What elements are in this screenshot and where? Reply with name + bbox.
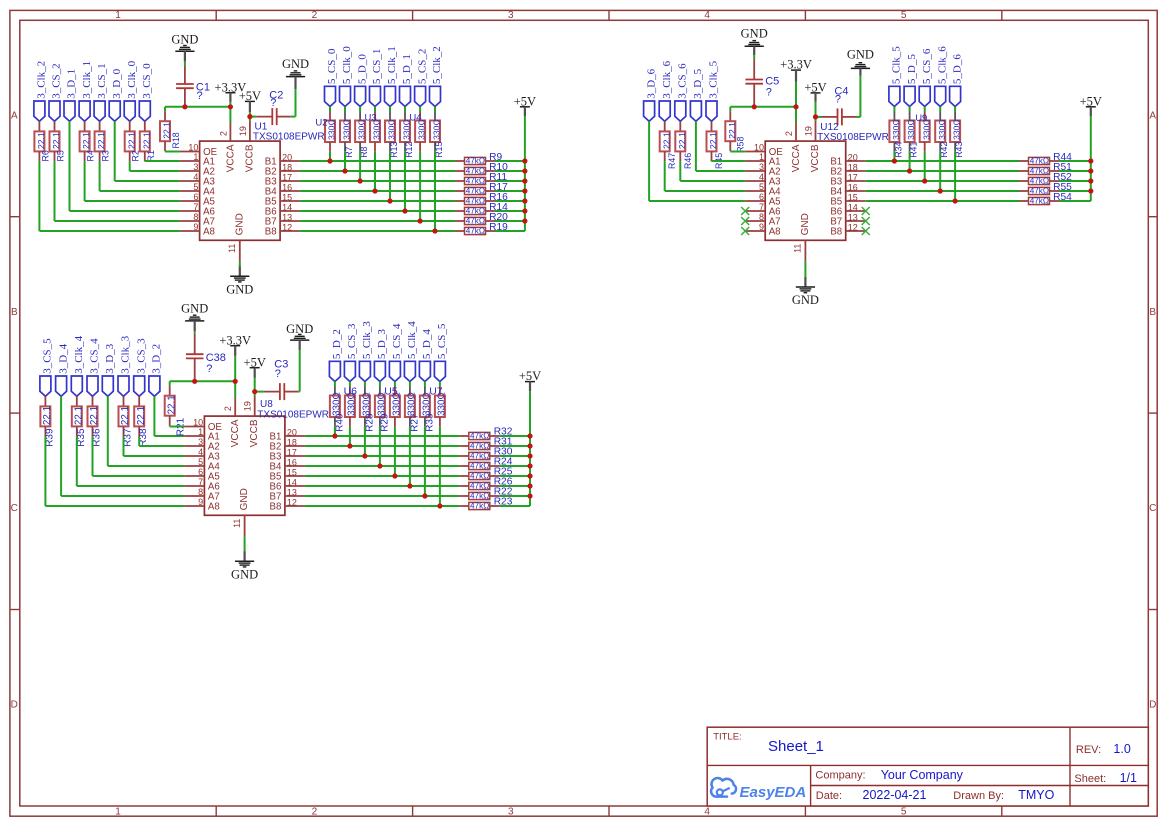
resistor R36 22.1 xyxy=(92,396,94,406)
svg-text:47kΩ: 47kΩ xyxy=(1030,157,1049,166)
node junction VCCA xyxy=(233,379,238,384)
pin 6 A5 xyxy=(745,200,765,202)
resistor R10 47k xyxy=(455,170,465,172)
svg-text:5_D_3: 5_D_3 xyxy=(376,329,388,359)
wire 3_D_2 to U8 xyxy=(153,396,155,436)
svg-text:13: 13 xyxy=(282,213,292,223)
junction 5_Clk_6 xyxy=(938,188,943,193)
wire +5V to C2 xyxy=(250,116,256,118)
svg-text:A8: A8 xyxy=(769,227,781,238)
port 5_CS_2 xyxy=(415,86,426,106)
svg-text:?: ? xyxy=(275,368,281,380)
resistor 330 R41 xyxy=(909,107,911,112)
svg-text:1: 1 xyxy=(198,427,203,437)
junction 5_CS_2 xyxy=(418,218,423,223)
svg-text:8: 8 xyxy=(193,212,198,222)
svg-text:R28: R28 xyxy=(364,413,375,432)
wire 3_CS_2 to U1 xyxy=(54,161,56,221)
wire 5_Clk_1 to row xyxy=(389,152,391,201)
svg-text:47kΩ: 47kΩ xyxy=(466,227,485,236)
junction 5_Clk_0 xyxy=(342,168,347,173)
port 5_D_5 xyxy=(904,86,915,106)
resistor R4 22.1 xyxy=(84,121,86,131)
wire B3 row xyxy=(866,180,1019,182)
port 3_CS_2 xyxy=(49,101,60,121)
svg-text:18: 18 xyxy=(282,163,292,173)
svg-text:16: 16 xyxy=(287,458,297,468)
resistor 330 R7 xyxy=(344,107,346,112)
pin 13 B7 xyxy=(285,495,305,497)
svg-text:15: 15 xyxy=(287,468,297,478)
svg-text:?: ? xyxy=(270,97,276,109)
resistor R1 22.1 xyxy=(144,121,146,131)
svg-text:8: 8 xyxy=(759,212,764,222)
wire +5V to VCCB node xyxy=(815,102,817,117)
resistor R14 47k xyxy=(455,210,465,212)
wire R17 to +5V rail xyxy=(495,190,525,192)
svg-text:Sheet_1: Sheet_1 xyxy=(768,738,824,755)
svg-text:?: ? xyxy=(206,363,212,375)
svg-text:R3: R3 xyxy=(101,150,111,161)
op-amp U1 TXS0108EPWR body xyxy=(200,141,281,240)
junction 5_Clk_2 xyxy=(432,228,437,233)
svg-text:5_D_4: 5_D_4 xyxy=(421,329,433,359)
wire +3.3V to node xyxy=(229,102,231,107)
wire 5_CS_3 to row xyxy=(349,427,351,446)
svg-text:1: 1 xyxy=(115,807,121,818)
wire R19 to +5V rail xyxy=(495,230,525,232)
wire +3.3V to node xyxy=(234,356,236,381)
svg-text:VCCA: VCCA xyxy=(791,144,802,172)
svg-text:R18: R18 xyxy=(171,132,181,148)
wire R21 to OE xyxy=(169,425,171,428)
node junction C-GND xyxy=(182,104,187,109)
svg-text:?: ? xyxy=(766,87,772,99)
svg-text:47kΩ: 47kΩ xyxy=(470,462,489,471)
svg-text:R33: R33 xyxy=(424,413,435,432)
svg-text:5_D_1: 5_D_1 xyxy=(401,54,413,84)
wire +5V to VCCB node xyxy=(249,112,251,116)
junction +5V rail row 5 xyxy=(522,198,527,203)
svg-text:VCCB: VCCB xyxy=(244,144,255,172)
svg-text:3: 3 xyxy=(193,162,198,172)
svg-text:GND: GND xyxy=(800,213,811,235)
svg-text:1/1: 1/1 xyxy=(1120,771,1137,785)
wire B4 row xyxy=(300,190,455,192)
pin 20 B1 xyxy=(280,160,300,162)
svg-text:47kΩ: 47kΩ xyxy=(466,187,485,196)
port 3_D_4 xyxy=(56,376,67,396)
wire B1 row xyxy=(305,435,459,437)
svg-text:15: 15 xyxy=(282,193,292,203)
pin 19 VCCB xyxy=(249,121,251,141)
svg-text:2: 2 xyxy=(218,131,228,136)
wire R23 to +5V rail xyxy=(499,505,530,507)
wire R55 to +5V rail xyxy=(1059,190,1091,192)
pin 2 VCCA xyxy=(229,123,231,142)
svg-text:VCCA: VCCA xyxy=(225,144,236,172)
wire B7 row xyxy=(300,220,455,222)
svg-text:20: 20 xyxy=(282,153,292,163)
svg-text:B: B xyxy=(1149,307,1156,318)
wire 5_CS_0 to row xyxy=(329,152,331,161)
svg-text:VCCB: VCCB xyxy=(249,419,260,447)
wire 5_Clk_3 to row xyxy=(364,427,366,456)
wire 3_D_5 to U12 xyxy=(695,121,697,171)
svg-text:22.1: 22.1 xyxy=(120,406,131,425)
wire B1 row xyxy=(300,160,455,162)
pin 18 B2 xyxy=(280,170,300,172)
svg-text:19: 19 xyxy=(243,401,253,411)
no-connect A7 xyxy=(741,217,749,225)
svg-text:D: D xyxy=(1149,700,1156,711)
port 5_Clk_2 xyxy=(430,86,441,106)
capacitor C5 xyxy=(753,59,755,79)
junction 5_Clk_5 xyxy=(892,158,897,163)
pin 14 B6 xyxy=(280,210,300,212)
wire 3_D_4 to U8 xyxy=(60,396,62,496)
svg-text:R47: R47 xyxy=(667,153,677,169)
svg-text:3_Clk_3: 3_Clk_3 xyxy=(120,335,132,373)
wire ground to cap xyxy=(184,61,186,66)
resistor R46 22.1 xyxy=(679,121,681,131)
port 5_CS_5 xyxy=(434,361,445,381)
svg-text:10: 10 xyxy=(193,418,203,428)
pin 12 B8 xyxy=(280,230,300,232)
resistor 330 R13 xyxy=(389,107,391,112)
svg-text:14: 14 xyxy=(848,203,858,213)
svg-text:3_D_6: 3_D_6 xyxy=(645,68,657,98)
pin 1 A1 xyxy=(180,160,200,162)
wire R10 to +5V rail xyxy=(495,170,525,172)
wire 5_D_1 to row xyxy=(404,152,406,211)
resistor 330 (array) xyxy=(924,107,926,112)
port 5_Clk_6 xyxy=(935,86,946,106)
svg-text:47kΩ: 47kΩ xyxy=(1030,177,1049,186)
svg-text:5_CS_4: 5_CS_4 xyxy=(391,323,403,359)
svg-text:C: C xyxy=(11,503,18,514)
svg-text:47kΩ: 47kΩ xyxy=(466,177,485,186)
pin 15 B5 xyxy=(280,200,300,202)
wire B4 row xyxy=(305,465,459,467)
port 3_D_5 xyxy=(690,101,701,121)
pin 3 A2 xyxy=(745,170,765,172)
wire B6 row xyxy=(300,210,455,212)
wire R11 to +5V rail xyxy=(495,180,525,182)
svg-text:2: 2 xyxy=(784,131,794,136)
junction 5_CS_6 xyxy=(922,178,927,183)
wire B8 row xyxy=(300,230,455,232)
junction 5_D_1 xyxy=(402,208,407,213)
svg-text:330Ω: 330Ω xyxy=(332,392,343,416)
junction +5V VCCB xyxy=(813,114,818,119)
port 5_D_6 xyxy=(950,86,961,106)
frame ticks xyxy=(215,10,217,20)
wire C2 to ground xyxy=(291,116,296,118)
pin 6 A5 xyxy=(180,200,200,202)
resistor 330 (array) xyxy=(374,107,376,112)
svg-text:3_D_4: 3_D_4 xyxy=(57,343,69,373)
resistor 330 (array) xyxy=(439,382,441,387)
wire ground to cap xyxy=(753,55,755,59)
svg-text:47kΩ: 47kΩ xyxy=(466,217,485,226)
svg-text:5_Clk_3: 5_Clk_3 xyxy=(361,321,373,359)
pin 2 VCCA xyxy=(795,123,797,142)
port 5_CS_1 xyxy=(370,86,381,106)
wire node to VCCA xyxy=(795,107,797,123)
no-connect B8 xyxy=(862,227,870,235)
wire 5_CS_4 to row xyxy=(394,427,396,476)
svg-text:4: 4 xyxy=(704,10,710,21)
svg-text:330Ω: 330Ω xyxy=(407,392,418,416)
svg-text:3_D_0: 3_D_0 xyxy=(111,68,123,98)
pin 8 A7 xyxy=(184,495,204,497)
resistor R22 47k xyxy=(459,495,469,497)
junction 5_D_4 xyxy=(422,493,427,498)
node junction C-GND xyxy=(752,104,757,109)
junction +5V rail row 1 xyxy=(1088,158,1093,163)
svg-text:5_CS_3: 5_CS_3 xyxy=(346,323,358,359)
resistor 330 R40 xyxy=(334,382,336,387)
ground xyxy=(244,551,246,561)
svg-text:3_Clk_2: 3_Clk_2 xyxy=(36,61,48,99)
wire 5_CS_5 to row xyxy=(439,427,441,506)
pin 16 B4 xyxy=(846,190,866,192)
svg-text:330Ω: 330Ω xyxy=(952,119,962,140)
resistor R9 47k xyxy=(455,160,465,162)
junction +5V rail row 2 xyxy=(527,443,532,448)
svg-text:47kΩ: 47kΩ xyxy=(470,502,489,511)
wire 5_D_5 to row xyxy=(909,152,911,171)
svg-text:16: 16 xyxy=(848,183,858,193)
svg-text:20: 20 xyxy=(287,428,297,438)
pin 8 A7 xyxy=(745,220,765,222)
wire R9 to +5V rail xyxy=(495,160,525,162)
pin 7 A6 xyxy=(745,210,765,212)
junction 5_D_3 xyxy=(377,463,382,468)
wire 5_CS_1 to row xyxy=(374,152,376,191)
wire R30 to +5V rail xyxy=(499,455,530,457)
svg-text:6: 6 xyxy=(759,192,764,202)
svg-text:B8: B8 xyxy=(830,227,842,238)
wire 3_Clk_0 to U1 xyxy=(129,161,131,171)
svg-text:330Ω: 330Ω xyxy=(362,392,373,416)
junction +5V rail row 1 xyxy=(527,433,532,438)
wire GND pin xyxy=(244,536,246,551)
wire 3_D_0 to U1 xyxy=(114,121,116,181)
svg-text:3: 3 xyxy=(759,162,764,172)
svg-text:1: 1 xyxy=(759,152,764,162)
wire 3_D_3 to U8 xyxy=(107,396,109,466)
svg-text:22.1: 22.1 xyxy=(708,132,718,149)
wire C3 to ground xyxy=(298,391,299,393)
wire B4 row xyxy=(866,190,1019,192)
svg-text:47kΩ: 47kΩ xyxy=(470,432,489,441)
resistor 330 R12 xyxy=(404,107,406,112)
svg-text:5_CS_2: 5_CS_2 xyxy=(416,49,428,84)
resistor R54 47k xyxy=(1019,200,1029,202)
svg-text:2: 2 xyxy=(223,406,233,411)
svg-text:9: 9 xyxy=(759,222,764,232)
svg-text:10: 10 xyxy=(188,143,198,153)
svg-text:5_CS_1: 5_CS_1 xyxy=(371,49,383,84)
pin 9 A8 xyxy=(745,230,765,232)
port 3_D_0 xyxy=(109,101,120,121)
resistor R31 47k xyxy=(459,445,469,447)
op-amp U8 TXS0108EPWR body xyxy=(204,416,285,515)
wire 5_D_6 to row xyxy=(954,152,956,201)
svg-text:3: 3 xyxy=(508,807,514,818)
wire +5V to C4 xyxy=(816,116,822,118)
wire +5V to VCCB node xyxy=(254,378,256,392)
resistor R45 22.1 xyxy=(711,121,713,131)
svg-text:18: 18 xyxy=(287,438,297,448)
svg-text:R1: R1 xyxy=(146,150,156,161)
resistor 330 (array) xyxy=(349,382,351,387)
junction +5V rail row 4 xyxy=(1088,188,1093,193)
svg-text:Company:: Company: xyxy=(815,770,865,782)
svg-text:47kΩ: 47kΩ xyxy=(470,472,489,481)
node junction VCCA xyxy=(793,104,798,109)
resistor R23 47k xyxy=(459,505,469,507)
junction 5_Clk_4 xyxy=(407,483,412,488)
svg-text:5_Clk_2: 5_Clk_2 xyxy=(431,46,443,84)
wire B2 row xyxy=(305,445,459,447)
svg-text:22.1: 22.1 xyxy=(141,132,151,149)
svg-text:47kΩ: 47kΩ xyxy=(470,492,489,501)
svg-text:10: 10 xyxy=(754,143,764,153)
junction +5V rail row 5 xyxy=(527,473,532,478)
wire +3.3V to node xyxy=(795,82,797,107)
pin 6 A5 xyxy=(184,475,204,477)
svg-text:7: 7 xyxy=(198,477,203,487)
wire 3_Clk_4 to U8 xyxy=(76,436,78,486)
resistor 330 (array) xyxy=(329,107,331,112)
title block grid xyxy=(707,727,1148,806)
port 3_Clk_5 xyxy=(706,101,717,121)
port 3_CS_6 xyxy=(675,101,686,121)
wire C4 to ground xyxy=(856,116,860,118)
resistor 330 (array) xyxy=(394,382,396,387)
wire +5V rail xyxy=(1090,116,1092,201)
svg-text:5_CS_6: 5_CS_6 xyxy=(921,48,933,84)
svg-text:330Ω: 330Ω xyxy=(387,119,397,140)
wire 3_Clk_6 to U12 xyxy=(664,161,666,191)
svg-text:47kΩ: 47kΩ xyxy=(466,197,485,206)
svg-text:5: 5 xyxy=(759,182,764,192)
svg-text:5_D_6: 5_D_6 xyxy=(951,54,963,84)
svg-text:19: 19 xyxy=(804,126,814,136)
svg-text:47kΩ: 47kΩ xyxy=(1030,187,1049,196)
svg-text:22.1: 22.1 xyxy=(136,406,147,425)
wire 5_D_0 to row xyxy=(359,152,361,181)
svg-text:3_Clk_4: 3_Clk_4 xyxy=(73,335,85,373)
svg-text:B8: B8 xyxy=(270,502,282,513)
port 3_Clk_1 xyxy=(79,101,90,121)
wire B3 row xyxy=(305,455,459,457)
wire R44 to +5V rail xyxy=(1059,160,1091,162)
svg-text:5_CS_5: 5_CS_5 xyxy=(436,323,448,359)
resistor R32 47k xyxy=(459,435,469,437)
resistor R5 22.1 xyxy=(54,121,56,131)
svg-text:17: 17 xyxy=(282,173,292,183)
svg-text:U4: U4 xyxy=(409,113,421,124)
port 3_CS_3 xyxy=(134,376,145,396)
svg-text:3_Clk_5: 3_Clk_5 xyxy=(708,60,720,98)
wire R16 to +5V rail xyxy=(495,200,525,202)
svg-text:3_D_2: 3_D_2 xyxy=(151,344,163,374)
svg-text:22.1: 22.1 xyxy=(51,132,61,149)
svg-text:2: 2 xyxy=(312,807,318,818)
capacitor C2 xyxy=(256,116,272,118)
no-connect A6 xyxy=(741,207,749,215)
pin 5 A4 xyxy=(184,465,204,467)
svg-text:Your Company: Your Company xyxy=(881,768,964,782)
svg-text:R5: R5 xyxy=(56,150,66,161)
port 3_D_3 xyxy=(102,376,113,396)
wire B8 row xyxy=(305,505,459,507)
junction +5V rail row 4 xyxy=(527,463,532,468)
wire 3_D_1 to U1 xyxy=(69,121,71,211)
pin 11 GND xyxy=(239,240,241,261)
svg-text:22.1: 22.1 xyxy=(96,132,106,149)
pin 17 B3 xyxy=(280,180,300,182)
svg-text:11: 11 xyxy=(793,244,803,253)
capacitor C38 xyxy=(194,334,196,354)
resistor 330 R34 xyxy=(893,107,895,112)
resistor 330 R28 xyxy=(364,382,366,387)
svg-text:3_CS_6: 3_CS_6 xyxy=(677,63,689,99)
svg-text:22.1: 22.1 xyxy=(36,132,46,149)
wire 3_CS_1 to U1 xyxy=(99,161,101,191)
junction +5V rail row 6 xyxy=(527,483,532,488)
svg-text:5: 5 xyxy=(198,457,203,467)
resistor R26 47k xyxy=(459,485,469,487)
wire 5_Clk_6 to row xyxy=(939,152,941,191)
wire 5_CS_6 to row xyxy=(924,152,926,181)
pin 4 A3 xyxy=(745,180,765,182)
svg-text:2022-04-21: 2022-04-21 xyxy=(863,788,927,802)
resistor R38 22.1 xyxy=(138,396,140,406)
svg-text:3_Clk_6: 3_Clk_6 xyxy=(661,60,673,98)
port 3_D_2 xyxy=(149,376,160,396)
svg-text:22.1: 22.1 xyxy=(661,132,671,149)
svg-text:GND: GND xyxy=(239,488,250,510)
wire R26 to +5V rail xyxy=(499,485,530,487)
pin 15 B5 xyxy=(285,475,305,477)
svg-text:U6: U6 xyxy=(344,386,358,398)
port 5_CS_0 xyxy=(325,86,336,106)
svg-text:EasyEDA: EasyEDA xyxy=(740,784,807,801)
svg-text:?: ? xyxy=(835,93,841,105)
pin 9 A8 xyxy=(184,505,204,507)
wire 3_CS_5 to U8 xyxy=(44,436,46,506)
port 5_D_3 xyxy=(374,361,385,381)
svg-text:9: 9 xyxy=(198,497,203,507)
svg-text:22.1: 22.1 xyxy=(89,406,100,425)
junction 5_D_0 xyxy=(358,178,363,183)
resistor R52 47k xyxy=(1019,180,1029,182)
pin 10 OE xyxy=(184,426,204,428)
wire OE xyxy=(170,426,185,428)
svg-text:5_D_2: 5_D_2 xyxy=(331,329,343,359)
pin 20 B1 xyxy=(846,160,866,162)
svg-text:22.1: 22.1 xyxy=(81,132,91,149)
pin 16 B4 xyxy=(285,465,305,467)
svg-text:22.1: 22.1 xyxy=(166,395,177,414)
svg-text:3_CS_5: 3_CS_5 xyxy=(42,338,54,374)
wire 3_Clk_3 to U8 xyxy=(123,436,125,456)
